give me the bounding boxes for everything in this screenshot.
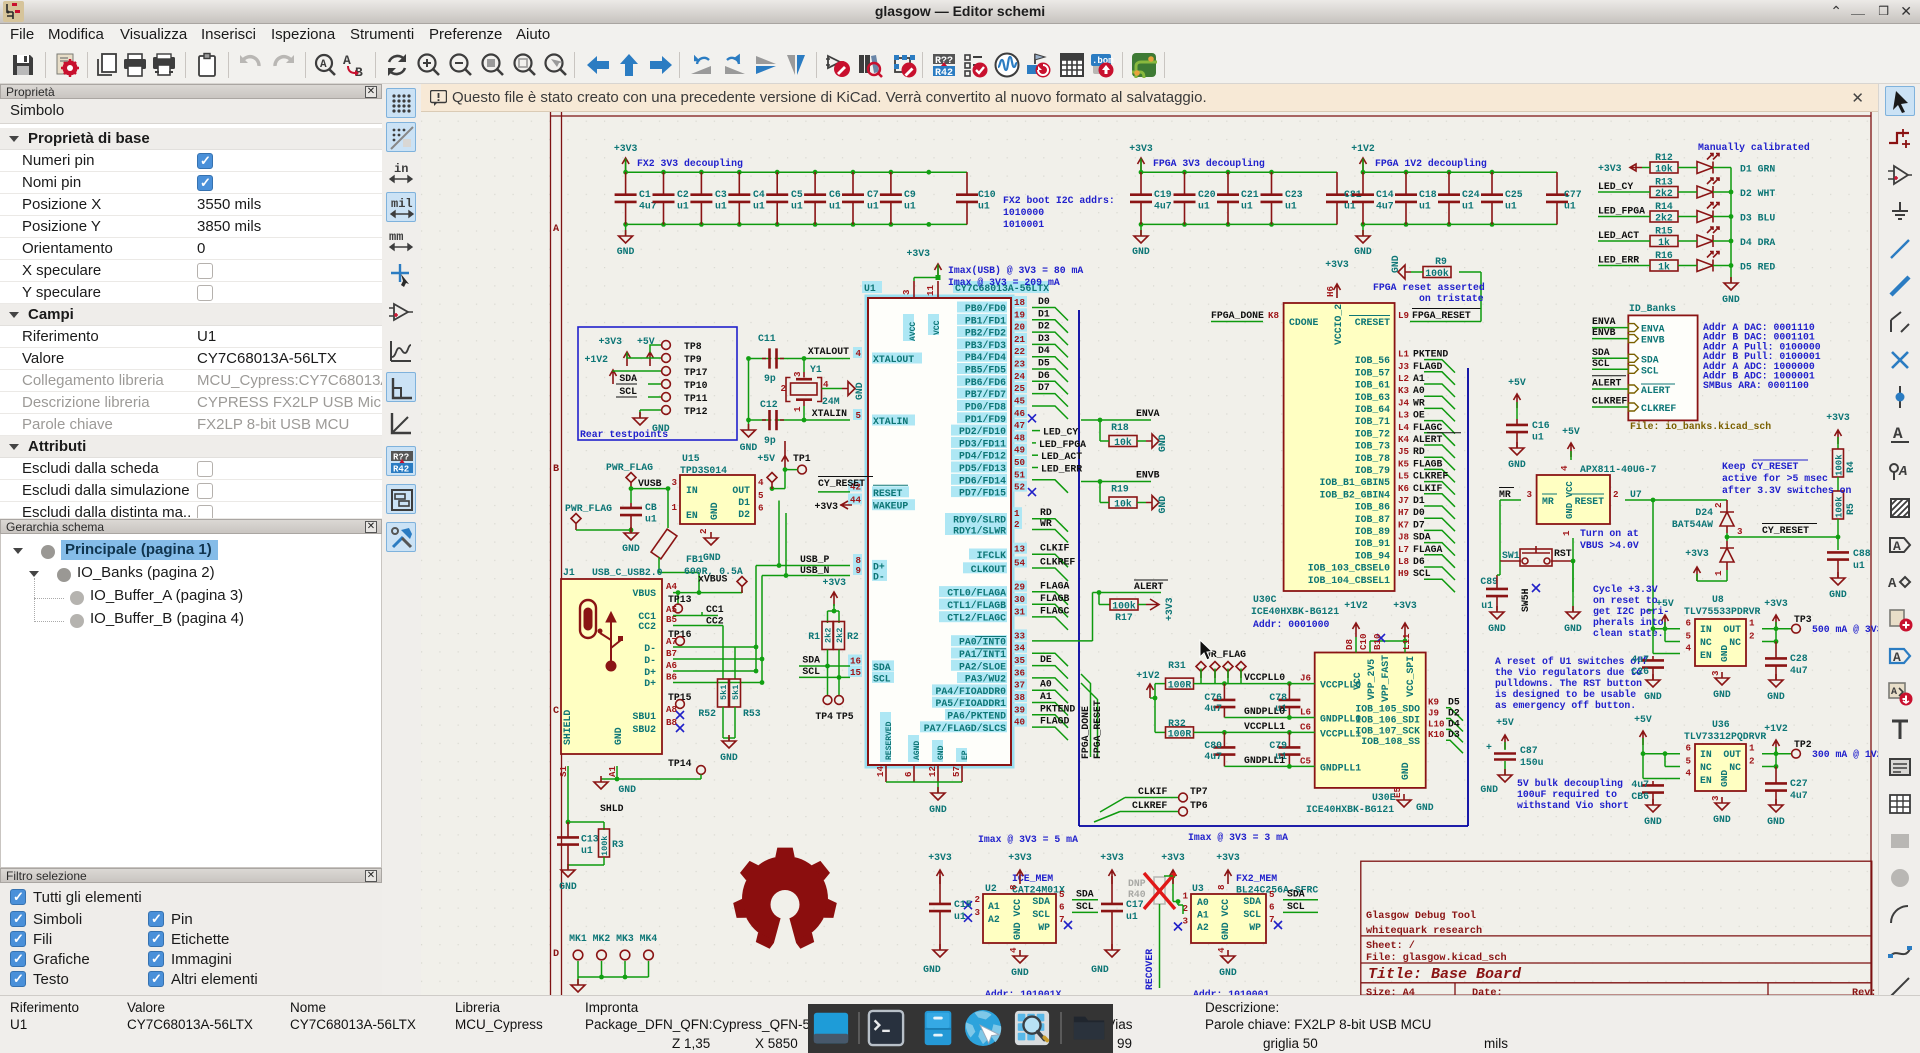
U1 right pin block: names/numbers/stubs	[920, 296, 1036, 734]
svg-text:SDA: SDA	[873, 662, 891, 673]
svg-text:A: A	[1893, 425, 1903, 443]
svg-text:ICE40HXBK-BG121: ICE40HXBK-BG121	[1306, 804, 1394, 815]
hole MK1	[569, 933, 587, 960]
svg-text:45: 45	[1014, 396, 1026, 407]
svg-text:100R: 100R	[1168, 728, 1192, 739]
note FX2 boot I2C addrs	[1003, 195, 1115, 230]
wire	[1598, 191, 1731, 193]
svg-text:2k2: 2k2	[824, 628, 834, 643]
svg-text:on tristate: on tristate	[1419, 293, 1484, 304]
svg-text:CLKREF: CLKREF	[1132, 800, 1167, 811]
svg-text:C5: C5	[791, 189, 803, 200]
svg-text:as emergency off button.: as emergency off button.	[1495, 700, 1636, 711]
svg-text:1: 1	[1713, 570, 1724, 576]
svg-text:L1: L1	[1398, 349, 1410, 360]
capacitor C16	[1506, 425, 1528, 432]
svg-text:3: 3	[1526, 489, 1532, 500]
svg-text:MR: MR	[1542, 496, 1554, 507]
svg-text:active for >5 msec: active for >5 msec	[1722, 473, 1828, 484]
svg-text:Y1: Y1	[810, 364, 822, 375]
svg-text:100uF required to: 100uF required to	[1517, 789, 1617, 800]
resistor R13	[1650, 177, 1678, 200]
svg-text:PD4/FD12: PD4/FD12	[959, 451, 1006, 462]
svg-text:xVBUS: xVBUS	[698, 574, 728, 585]
sheet pin CLKREF	[1592, 396, 1676, 415]
ground	[1219, 950, 1237, 978]
svg-text:R18: R18	[1111, 422, 1129, 433]
svg-text:31: 31	[1014, 606, 1026, 617]
wires to TP4 TP5	[828, 666, 840, 696]
svg-text:GND: GND	[1564, 623, 1582, 634]
svg-text:L9: L9	[1398, 310, 1409, 321]
wire GND A1	[616, 766, 618, 779]
svg-text:U2: U2	[985, 883, 997, 894]
svg-text:1: 1	[1749, 618, 1755, 629]
svg-text:6: 6	[1685, 618, 1691, 629]
note 5V bulk decoupling	[1517, 778, 1629, 811]
svg-text:GND: GND	[1219, 967, 1237, 978]
svg-text:24M: 24M	[822, 396, 840, 407]
power flag PWR_FLAG at VUSB	[606, 462, 662, 489]
svg-text:FX2 3V3 decoupling: FX2 3V3 decoupling	[637, 158, 743, 169]
svg-text:GND: GND	[559, 881, 577, 892]
svg-text:35: 35	[1014, 655, 1026, 666]
net label CY_RESET	[1750, 524, 1840, 540]
svg-text:C15: C15	[954, 899, 972, 910]
svg-text:u1: u1	[1241, 201, 1253, 212]
svg-text:u1: u1	[645, 514, 657, 525]
hole MK2	[593, 933, 611, 960]
svg-text:7: 7	[1059, 914, 1065, 925]
svg-text:D0: D0	[1038, 296, 1050, 307]
svg-text:GND: GND	[937, 745, 946, 760]
svg-text:50: 50	[1014, 457, 1025, 468]
power +5V	[1562, 426, 1580, 460]
svg-text:APX811-40UG-7: APX811-40UG-7	[1580, 464, 1657, 475]
ground	[617, 230, 635, 257]
svg-text:33: 33	[1014, 630, 1026, 641]
svg-text:MK1: MK1	[569, 933, 587, 944]
resistor R32	[1155, 718, 1194, 739]
svg-text:VCC: VCC	[933, 320, 942, 335]
svg-text:R3: R3	[612, 839, 624, 850]
svg-text:TP1: TP1	[793, 453, 811, 464]
svg-text:51: 51	[1014, 469, 1026, 480]
svg-text:14: 14	[875, 765, 886, 777]
svg-text:TP12: TP12	[684, 406, 708, 417]
svg-text:IOB_107_SCK: IOB_107_SCK	[1355, 725, 1420, 736]
top pin names vertical	[1352, 655, 1416, 702]
svg-text:TLV75533PDRVR: TLV75533PDRVR	[1684, 606, 1761, 617]
svg-text:R4: R4	[1845, 461, 1856, 473]
power +1V2 above PLL	[1344, 600, 1368, 653]
led D2	[1697, 178, 1775, 199]
svg-text:IOB_61: IOB_61	[1355, 380, 1390, 391]
svg-text:GND: GND	[923, 964, 941, 975]
svg-text:ALERT: ALERT	[1592, 378, 1622, 389]
svg-text:u1: u1	[1462, 201, 1474, 212]
svg-text:PWR_FLAG: PWR_FLAG	[565, 503, 612, 514]
svg-text:Cycle +3.3V: Cycle +3.3V	[1593, 584, 1658, 595]
ground	[1354, 230, 1372, 257]
svg-text:SDA: SDA	[619, 373, 637, 384]
svg-text:OUT: OUT	[732, 485, 750, 496]
svg-text:OUT: OUT	[1723, 624, 1741, 635]
svg-text:IOB_79: IOB_79	[1355, 465, 1390, 476]
svg-text:D-: D-	[644, 643, 656, 654]
svg-text:2: 2	[698, 528, 709, 534]
svg-text:+3V3: +3V3	[598, 336, 622, 347]
svg-text:NC: NC	[1729, 762, 1741, 773]
svg-text:D3: D3	[1448, 729, 1460, 740]
crystal Y1	[780, 364, 839, 412]
svg-text:SCL: SCL	[1592, 358, 1610, 369]
wire	[1598, 265, 1731, 267]
svg-text:IOB_71: IOB_71	[1355, 416, 1390, 427]
svg-text:mil: mil	[391, 197, 413, 211]
svg-text:SDA: SDA	[1641, 354, 1659, 365]
svg-text:A: A	[1893, 650, 1901, 665]
svg-text:J8: J8	[1398, 532, 1410, 543]
svg-text:U36: U36	[1712, 719, 1730, 730]
wire crystal case to GND	[822, 388, 843, 390]
svg-text:4: 4	[1216, 947, 1227, 953]
svg-text:VBUS >4.0V: VBUS >4.0V	[1580, 540, 1639, 551]
svg-text:EN: EN	[1700, 650, 1712, 661]
svg-text:WR: WR	[1040, 518, 1052, 529]
U1 right wires to bus with labels	[1032, 296, 1093, 740]
svg-text:12: 12	[927, 766, 938, 777]
svg-text:1: 1	[1182, 891, 1188, 902]
svg-text:TP14: TP14	[668, 758, 692, 769]
svg-text:IOB_72: IOB_72	[1355, 428, 1390, 439]
svg-text:C77: C77	[1564, 189, 1582, 200]
led D1	[1697, 154, 1775, 175]
ground U8	[1713, 672, 1731, 700]
svg-text:ENVA: ENVA	[1641, 324, 1665, 335]
note Cycle 3.3V on reset	[1593, 584, 1669, 639]
svg-text:+1V2: +1V2	[1136, 670, 1160, 681]
svg-text:mm: mm	[389, 230, 403, 244]
svg-text:A: A	[553, 224, 560, 235]
svg-text:5: 5	[1269, 889, 1275, 900]
svg-text:52: 52	[1014, 482, 1025, 493]
svg-text:C2: C2	[677, 189, 689, 200]
U1 top pins AVCC VCC	[901, 281, 942, 341]
svg-text:R42: R42	[935, 68, 953, 78]
svg-text:RDY1/SLWR: RDY1/SLWR	[953, 526, 1006, 537]
svg-text:+: +	[1486, 742, 1492, 753]
svg-text:+1V2: +1V2	[1351, 143, 1375, 154]
svg-text:29: 29	[1014, 582, 1025, 593]
svg-text:GND: GND	[1508, 459, 1526, 470]
svg-text:PD5/FD13: PD5/FD13	[959, 463, 1006, 474]
capacitor C21	[1217, 172, 1259, 224]
pin D- A7	[644, 636, 677, 654]
svg-text:K10: K10	[1428, 729, 1445, 740]
svg-text:OUT: OUT	[1723, 749, 1741, 760]
svg-text:PB7/FD7: PB7/FD7	[965, 389, 1006, 400]
svg-text:+3V3: +3V3	[1129, 143, 1153, 154]
svg-text:LED_ACT: LED_ACT	[1598, 230, 1639, 241]
note Imax USB	[948, 265, 1083, 288]
svg-text:GND: GND	[1644, 691, 1662, 702]
ground (right-pointing)	[1146, 434, 1159, 448]
svg-text:34: 34	[1014, 643, 1026, 654]
svg-text:Imax @ 3V3 = 5 mA: Imax @ 3V3 = 5 mA	[978, 834, 1078, 845]
svg-text:R17: R17	[1115, 612, 1133, 623]
svg-text:SCL: SCL	[1243, 909, 1261, 920]
svg-text:48: 48	[1014, 432, 1026, 443]
svg-text:CC2: CC2	[706, 616, 724, 627]
svg-text:PB6/FD6: PB6/FD6	[965, 377, 1006, 388]
svg-text:PKTEND: PKTEND	[1040, 703, 1075, 714]
svg-text:18: 18	[1014, 297, 1026, 308]
svg-text:GND: GND	[613, 727, 624, 745]
svg-text:6: 6	[1269, 901, 1275, 912]
svg-text:B10: B10	[1372, 633, 1383, 650]
svg-text:CC2: CC2	[638, 621, 656, 632]
ground	[720, 735, 738, 763]
svg-text:CDONE: CDONE	[1289, 317, 1319, 328]
svg-text:SBU1: SBU1	[632, 711, 656, 722]
svg-text:B: B	[553, 464, 559, 475]
svg-text:+5V: +5V	[1496, 717, 1514, 728]
resistor R15	[1650, 226, 1678, 249]
svg-text:100k: 100k	[1112, 601, 1136, 612]
svg-text:GND: GND	[1488, 623, 1506, 634]
svg-text:Size: A4: Size: A4	[1366, 987, 1415, 995]
svg-text:GNDPLL0: GNDPLL0	[1244, 706, 1285, 717]
svg-text:FLAGC: FLAGC	[1413, 422, 1443, 433]
capacitor C5	[766, 172, 803, 224]
svg-text:A2: A2	[1197, 922, 1209, 933]
svg-text:SDA: SDA	[1243, 896, 1261, 907]
svg-text:5V bulk decoupling: 5V bulk decoupling	[1517, 778, 1623, 789]
svg-text:MK2: MK2	[593, 933, 611, 944]
svg-text:C79: C79	[1269, 740, 1287, 751]
svg-text:9p: 9p	[764, 373, 776, 384]
svg-text:L6: L6	[1300, 707, 1311, 718]
svg-text:22: 22	[1014, 346, 1025, 357]
U1 left pins	[848, 347, 922, 684]
svg-text:ENVA: ENVA	[1592, 316, 1616, 327]
svg-text:VCC_SPI: VCC_SPI	[1405, 656, 1416, 697]
capacitor CB	[620, 502, 657, 530]
svg-text:100k: 100k	[1835, 496, 1845, 518]
svg-text:300 mA @ 1V2: 300 mA @ 1V2	[1812, 749, 1878, 760]
test point TP3	[1792, 614, 1883, 635]
svg-text:+3V3: +3V3	[1764, 598, 1788, 609]
svg-text:L8: L8	[1398, 556, 1410, 567]
svg-text:FPGA_DONE: FPGA_DONE	[1211, 310, 1264, 321]
svg-text:GND: GND	[622, 543, 640, 554]
svg-text:8: 8	[1216, 884, 1227, 890]
svg-text:U8: U8	[1712, 594, 1724, 605]
svg-text:A1: A1	[1413, 373, 1425, 384]
power +1V2 out	[1762, 723, 1791, 769]
led D5	[1697, 252, 1775, 273]
pin SBU1	[632, 704, 684, 722]
power +3V3 above U1	[906, 248, 941, 278]
svg-text:38: 38	[1014, 692, 1026, 703]
svg-text:49: 49	[1014, 445, 1025, 456]
ground U1	[929, 787, 947, 815]
svg-text:3: 3	[1710, 795, 1721, 801]
wire CC1 CC2	[673, 604, 724, 627]
svg-text:SDA: SDA	[802, 655, 820, 666]
svg-text:MR: MR	[1499, 489, 1511, 500]
svg-text:U3: U3	[1192, 883, 1204, 894]
svg-text:u1: u1	[867, 201, 879, 212]
svg-text:C14: C14	[1376, 189, 1394, 200]
svg-text:1k: 1k	[1658, 237, 1670, 248]
SW5H DNP vertical	[1520, 584, 1540, 612]
svg-text:RESET: RESET	[873, 488, 903, 499]
svg-text:ICE40HXBK-BG121: ICE40HXBK-BG121	[1251, 606, 1339, 617]
svg-text:CLKREF: CLKREF	[1592, 396, 1627, 407]
net label xVBUS	[697, 574, 747, 595]
capacitor C18	[1395, 172, 1437, 224]
svg-text:24: 24	[1014, 371, 1026, 382]
svg-text:AGND: AGND	[913, 741, 922, 760]
svg-text:SBU2: SBU2	[632, 724, 656, 735]
svg-text:C11: C11	[758, 333, 776, 344]
note I2C addresses	[1703, 322, 1821, 391]
svg-text:TP9: TP9	[684, 354, 702, 365]
svg-text:4: 4	[1559, 465, 1570, 471]
test point TP8	[662, 341, 702, 352]
svg-text:D8: D8	[1344, 638, 1355, 650]
svg-text:C25: C25	[1505, 189, 1523, 200]
wires	[1141, 159, 1337, 237]
svg-text:SDA: SDA	[1032, 896, 1050, 907]
power +3V3 bottom	[1685, 548, 1727, 581]
wires to testpoints	[613, 345, 662, 418]
svg-text:MK3: MK3	[616, 933, 634, 944]
net label MR	[1499, 488, 1521, 562]
svg-text:4: 4	[1685, 768, 1691, 779]
svg-text:R1: R1	[808, 631, 820, 642]
net label FPGA_RESET	[1410, 272, 1481, 322]
svg-text:D1: D1	[1038, 308, 1050, 319]
svg-text:FPGA 3V3 decoupling: FPGA 3V3 decoupling	[1153, 158, 1265, 169]
svg-text:LED_FPGA: LED_FPGA	[1598, 206, 1645, 217]
svg-text:VBUS: VBUS	[632, 588, 656, 599]
svg-text:U1: U1	[864, 283, 876, 294]
svg-text:CTL2/FLAGC: CTL2/FLAGC	[947, 613, 1006, 624]
wire SDA SCL stubs	[1283, 889, 1318, 913]
svg-text:U30E: U30E	[1372, 792, 1396, 803]
svg-text:K6: K6	[1398, 483, 1409, 494]
svg-text:J7: J7	[1398, 495, 1409, 506]
svg-text:SCL: SCL	[1413, 568, 1431, 579]
ground C88	[1829, 572, 1847, 600]
svg-text:CRESET: CRESET	[1355, 317, 1390, 328]
hole MK3	[616, 933, 634, 960]
svg-text:5k1: 5k1	[719, 685, 729, 700]
svg-text:R19: R19	[1111, 484, 1129, 495]
svg-text:1010000: 1010000	[1003, 207, 1044, 218]
wire VCCPLL0	[1194, 669, 1315, 686]
svg-text:FPGA reset asserted: FPGA reset asserted	[1373, 282, 1485, 293]
svg-text:GND: GND	[1644, 816, 1662, 827]
svg-text:A4: A4	[666, 581, 678, 592]
svg-text:SCL: SCL	[1641, 365, 1659, 376]
svg-text:Sheet: /: Sheet: /	[1366, 940, 1415, 952]
svg-text:A: A	[1891, 687, 1897, 698]
svg-text:withstand Vio short: withstand Vio short	[1517, 800, 1629, 811]
svg-text:u1: u1	[829, 201, 841, 212]
svg-text:GND: GND	[1767, 691, 1785, 702]
svg-text:TP15: TP15	[668, 692, 692, 703]
svg-text:C10: C10	[1358, 633, 1369, 650]
wire GNDPLL1	[1224, 755, 1314, 769]
U30C labels	[1251, 594, 1339, 630]
pin GND A1	[607, 727, 624, 777]
svg-text:IOB_106_SDI: IOB_106_SDI	[1355, 715, 1420, 726]
svg-text:A: A	[1888, 576, 1897, 592]
svg-text:VPP_FAST: VPP_FAST	[1380, 655, 1391, 702]
power +3V3	[598, 336, 630, 366]
svg-text:9p: 9p	[764, 435, 776, 446]
capacitor C19	[1130, 172, 1172, 224]
svg-text:3: 3	[1710, 670, 1721, 676]
svg-text:VCCPLL1: VCCPLL1	[1244, 721, 1285, 732]
svg-text:IN: IN	[686, 485, 698, 496]
svg-text:10k: 10k	[1655, 164, 1673, 175]
svg-text:44: 44	[850, 495, 862, 506]
svg-text:C76: C76	[1204, 692, 1222, 703]
svg-text:SDA: SDA	[1413, 532, 1431, 543]
svg-text:D2: D2	[738, 509, 750, 520]
svg-text:L10: L10	[1428, 718, 1445, 729]
power flag at OUT	[767, 473, 777, 490]
ground (right pointing)	[842, 382, 855, 396]
svg-text:L3: L3	[1398, 410, 1410, 421]
svg-text:A6: A6	[666, 660, 677, 671]
svg-text:+3V3: +3V3	[1685, 548, 1709, 559]
test point TP12	[662, 406, 708, 417]
svg-text:ALERT: ALERT	[1413, 434, 1443, 445]
svg-text:C19: C19	[1154, 189, 1172, 200]
svg-text:2: 2	[1749, 756, 1755, 767]
svg-text:11: 11	[925, 284, 936, 296]
svg-text:D4: D4	[1448, 718, 1460, 729]
ground	[633, 412, 670, 434]
svg-text:36: 36	[1014, 667, 1025, 678]
resistor R9	[1423, 256, 1451, 279]
svg-text:1: 1	[1749, 743, 1755, 754]
svg-text:K9: K9	[1428, 697, 1439, 708]
ground CB6	[1644, 799, 1662, 827]
svg-text:C26: C26	[1631, 666, 1649, 677]
net label SHLD	[566, 803, 624, 830]
svg-text:DE: DE	[1040, 654, 1052, 665]
svg-text:SCL: SCL	[802, 666, 820, 677]
svg-text:+3V3: +3V3	[1216, 852, 1240, 863]
svg-text:+5V: +5V	[1634, 714, 1652, 725]
svg-text:ENVB: ENVB	[1592, 327, 1616, 338]
lower FPGA box pins: IOB_103/104 on upper part belong to U30C; draw extension	[1308, 556, 1455, 580]
svg-text:PA4/FIOADDR0: PA4/FIOADDR0	[935, 686, 1006, 697]
svg-text:R5: R5	[1845, 503, 1856, 515]
pin CRESET	[1349, 310, 1410, 328]
no-connect B10	[1377, 634, 1385, 642]
capacitor C7	[842, 172, 879, 224]
svg-text:FPGA 1V2 decoupling: FPGA 1V2 decoupling	[1375, 158, 1487, 169]
svg-text:SDA: SDA	[1592, 347, 1610, 358]
